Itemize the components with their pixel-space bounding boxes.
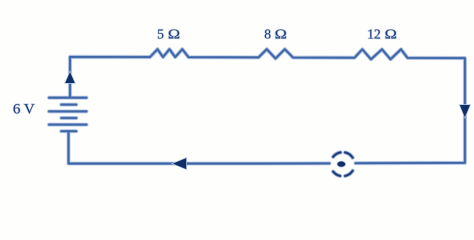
svg-text:6 V: 6 V [13, 102, 35, 118]
svg-text:8: 8 [264, 27, 271, 42]
svg-text:Ω: Ω [275, 28, 287, 42]
svg-text:12: 12 [367, 27, 381, 42]
svg-text:Ω: Ω [168, 28, 180, 42]
svg-text:Ω: Ω [385, 28, 397, 42]
svg-text:5: 5 [157, 27, 164, 42]
